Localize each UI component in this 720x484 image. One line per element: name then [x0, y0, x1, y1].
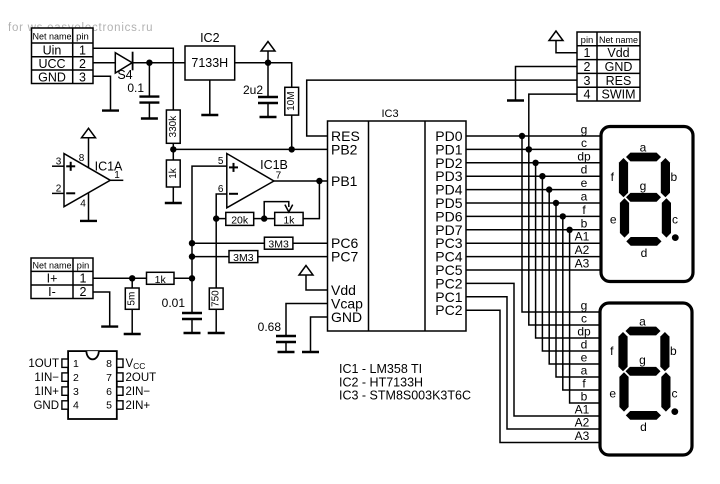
svg-text:4: 4: [584, 88, 591, 102]
svg-text:Net name: Net name: [32, 261, 71, 271]
svg-text:1IN−: 1IN−: [34, 372, 59, 384]
svg-text:dp: dp: [577, 149, 591, 163]
wire PD5 segment a: [466, 200, 601, 377]
svg-text:1OUT: 1OUT: [28, 358, 59, 370]
svg-text:1IN+: 1IN+: [34, 386, 59, 398]
potentiometer 1k: [264, 202, 303, 227]
svg-text:d: d: [581, 338, 588, 352]
svg-text:I-: I-: [48, 285, 56, 299]
svg-text:a: a: [581, 190, 588, 204]
junction after S4: [146, 60, 152, 66]
resistor 3M3 (PC7): [192, 251, 328, 265]
wire IC2 out: [235, 62, 268, 64]
svg-text:A1: A1: [575, 230, 590, 244]
wire PD6 segment f: [466, 213, 601, 390]
wire PB1 to pot: [303, 181, 319, 219]
svg-text:5m: 5m: [127, 292, 138, 306]
wire IC2 gnd: [209, 80, 211, 115]
svg-text:e: e: [581, 351, 588, 365]
svg-text:2: 2: [79, 57, 86, 71]
junction 20k/1k wiper: [261, 215, 267, 221]
resistor 750: [209, 288, 223, 333]
capacitor 5m: [125, 278, 139, 334]
svg-text:2: 2: [73, 372, 79, 384]
svg-text:pin: pin: [77, 261, 90, 272]
svg-text:7: 7: [106, 372, 112, 384]
wire A3 digit1: [466, 269, 601, 271]
svg-text:PB1: PB1: [331, 173, 358, 189]
wire RES net: [307, 80, 577, 136]
svg-text:Vdd: Vdd: [607, 46, 629, 60]
svg-text:a: a: [581, 364, 588, 378]
capacitor 0.68: [258, 320, 296, 352]
text BOM: [339, 362, 471, 403]
svg-text:A3: A3: [575, 257, 590, 271]
svg-text:PC2: PC2: [435, 302, 462, 318]
wire IC1B -in: [216, 194, 227, 219]
IC1A pin8 supply: [88, 138, 90, 168]
svg-text:c: c: [581, 312, 587, 326]
svg-text:1k: 1k: [155, 274, 167, 286]
wire PD7 segment b: [466, 227, 601, 403]
IC1A pin4 supply: [88, 193, 90, 221]
wire I+: [93, 277, 147, 279]
svg-text:e: e: [610, 213, 617, 227]
ground (IC1A): [80, 220, 97, 222]
svg-text:RES: RES: [606, 74, 632, 88]
wire A2 digit1: [466, 256, 601, 258]
wire -in node down: [215, 219, 217, 288]
wire IC3 gnd: [311, 317, 328, 352]
svg-text:2: 2: [584, 60, 591, 74]
svg-text:PB2: PB2: [331, 141, 358, 157]
wire UCC to diode: [93, 62, 115, 64]
svg-text:Uin: Uin: [43, 44, 62, 58]
svg-text:d: d: [581, 163, 588, 177]
svg-text:S4: S4: [117, 68, 132, 82]
svg-text:c: c: [672, 213, 678, 227]
svg-text:10M: 10M: [286, 91, 297, 110]
svg-text:pin: pin: [581, 35, 594, 46]
svg-text:SWIM: SWIM: [601, 88, 635, 102]
resistor 10M: [268, 63, 299, 150]
svg-text:0.68: 0.68: [258, 320, 282, 334]
wire Vcap: [286, 304, 328, 337]
resistor 3M3 (PC6): [192, 237, 328, 251]
net labels digit1: [575, 123, 591, 271]
svg-text:UCC: UCC: [38, 57, 65, 71]
svg-text:750: 750: [211, 290, 222, 307]
svg-text:I+: I+: [47, 271, 58, 285]
svg-text:2IN+: 2IN+: [126, 400, 151, 412]
ground (IC3): [302, 351, 319, 353]
svg-text:7: 7: [276, 171, 282, 182]
svg-text:g: g: [581, 299, 588, 313]
IC1A pin3 stub: [52, 165, 64, 167]
svg-text:pin: pin: [76, 32, 89, 43]
op-amp IC1B: [218, 154, 288, 208]
svg-text:GND: GND: [38, 71, 66, 85]
svg-text:GND: GND: [605, 60, 633, 74]
svg-text:g: g: [639, 353, 646, 367]
svg-text:b: b: [581, 390, 588, 404]
wire PD1 segment c: [466, 146, 601, 325]
wire PC2 to A3 digit2: [466, 310, 600, 442]
svg-text:IC1B: IC1B: [260, 158, 288, 172]
IC3 STM8S003 box: [328, 108, 467, 331]
svg-text:e: e: [609, 387, 616, 401]
svg-text:d: d: [640, 420, 647, 434]
ground (IC2): [201, 114, 218, 116]
svg-text:GND: GND: [33, 400, 59, 412]
resistor 1k input: [147, 272, 193, 286]
wire 20k to pot: [264, 218, 275, 220]
resistor 20k: [216, 212, 264, 226]
wire IC1B out to PB1: [274, 180, 328, 182]
ground (5m): [124, 333, 141, 335]
connector table J2 (I+/I-): [31, 258, 93, 299]
junction +in/1k: [189, 275, 195, 281]
svg-text:1k: 1k: [283, 214, 295, 226]
svg-text:A1: A1: [575, 403, 590, 417]
wire SWIM: [529, 94, 577, 149]
svg-text:1: 1: [114, 170, 120, 181]
regulator IC2 7133H: [185, 31, 235, 80]
wire PC1 to A2 digit2: [466, 297, 600, 429]
svg-text:4: 4: [80, 199, 86, 210]
svg-text:0.01: 0.01: [162, 296, 186, 310]
ground (0.01): [184, 332, 201, 334]
svg-text:dp: dp: [577, 325, 591, 339]
wire PC2 to A1 digit2: [466, 283, 600, 416]
wire I- to gnd: [93, 292, 110, 327]
svg-text:3: 3: [73, 386, 79, 398]
svg-text:b: b: [670, 170, 677, 184]
svg-text:2OUT: 2OUT: [126, 372, 157, 384]
wire A1 digit1: [466, 242, 601, 244]
ground (1k divider): [165, 202, 182, 204]
IC1A pin2 stub: [52, 192, 64, 194]
svg-text:1: 1: [584, 46, 591, 60]
svg-text:b: b: [670, 344, 677, 358]
ground (750): [208, 332, 225, 334]
IC1A pin1 stub: [110, 179, 123, 181]
svg-text:g: g: [581, 123, 588, 137]
7-segment display DS1: [601, 127, 693, 282]
svg-text:PC7: PC7: [331, 249, 358, 265]
junction I+/5m: [129, 275, 135, 281]
junction 10M bottom: [289, 146, 295, 152]
svg-text:d: d: [641, 246, 648, 260]
svg-text:3M3: 3M3: [268, 239, 289, 251]
svg-text:Net name: Net name: [599, 35, 638, 45]
junction +in/3M3a: [189, 240, 195, 246]
svg-text:2: 2: [80, 285, 87, 299]
resistor 1k divider: [166, 160, 180, 203]
svg-text:IC2: IC2: [200, 31, 220, 45]
svg-text:1: 1: [80, 271, 87, 285]
capacitor 2u2: [243, 63, 278, 117]
svg-text:e: e: [581, 176, 588, 190]
svg-text:3M3: 3M3: [233, 252, 254, 264]
wire PD0 segment g: [466, 133, 601, 312]
capacitor 0.01: [162, 296, 202, 333]
wire PD3 segment d: [466, 173, 601, 351]
svg-text:3: 3: [79, 71, 86, 85]
svg-text:8: 8: [79, 153, 85, 164]
svg-text:A3: A3: [575, 429, 590, 443]
svg-text:A2: A2: [575, 243, 590, 257]
svg-text:1k: 1k: [168, 167, 179, 179]
svg-text:2IN−: 2IN−: [126, 386, 151, 398]
svg-text:A2: A2: [575, 416, 590, 430]
junction Vdd node: [265, 60, 271, 66]
svg-text:a: a: [640, 141, 647, 155]
ground (J3): [507, 99, 524, 101]
power flag Vdd: [261, 42, 275, 63]
junction 330k/1k/PB2: [170, 146, 176, 152]
power flag J3 Vdd: [549, 31, 577, 53]
svg-text:IC2 - HT7133H: IC2 - HT7133H: [339, 375, 423, 389]
resistor 330k: [166, 110, 180, 160]
wire GND pin3: [93, 76, 111, 110]
capacitor 0.1: [127, 63, 159, 119]
net labels digit2: [575, 299, 591, 444]
svg-text:a: a: [639, 315, 646, 329]
svg-text:c: c: [581, 136, 587, 150]
wire IC1B +in: [192, 166, 227, 313]
power flag IC1A: [82, 128, 96, 138]
ground (2u2): [260, 116, 277, 118]
svg-text:5: 5: [106, 400, 112, 412]
ground (table J1): [102, 109, 119, 111]
svg-text:3: 3: [584, 74, 591, 88]
junction +in/3M3b: [189, 253, 195, 259]
wire diode to IC2: [133, 62, 185, 64]
wire J3 GND: [516, 67, 578, 101]
ground (0.68): [278, 351, 295, 353]
ground (I-): [101, 325, 118, 327]
svg-text:6: 6: [106, 386, 112, 398]
svg-text:1: 1: [73, 358, 79, 370]
svg-text:8: 8: [106, 358, 112, 370]
DIP-8 package LM358: [28, 351, 156, 419]
svg-text:1: 1: [79, 44, 86, 58]
svg-text:4: 4: [73, 400, 79, 412]
connector table J3 (SWIM): [577, 32, 640, 102]
svg-text:IC3 - STM8S003K3T6C: IC3 - STM8S003K3T6C: [339, 389, 471, 403]
connector table J1 (Uin/UCC/GND): [32, 28, 94, 85]
svg-text:c: c: [672, 387, 678, 401]
svg-text:IC3: IC3: [381, 108, 398, 120]
svg-text:Net name: Net name: [32, 32, 71, 42]
op-amp IC1A: [56, 153, 123, 210]
svg-text:b: b: [581, 216, 588, 230]
svg-text:GND: GND: [331, 309, 362, 325]
svg-text:2u2: 2u2: [243, 83, 263, 97]
svg-text:20k: 20k: [231, 214, 249, 226]
svg-text:IC1 - LM358 TI: IC1 - LM358 TI: [339, 362, 422, 376]
svg-text:330k: 330k: [168, 115, 179, 138]
junction -in/20k: [213, 215, 219, 221]
svg-text:g: g: [640, 179, 647, 193]
junction SWIM/PD1: [526, 146, 532, 152]
svg-text:7133H: 7133H: [191, 56, 228, 70]
junction PB1 node: [316, 178, 322, 184]
diode S4: [115, 52, 132, 82]
watermark text: [8, 22, 153, 34]
wire Uin to 330k: [93, 48, 173, 110]
wire PD2 segment dp: [466, 160, 601, 338]
power flag IC3 Vdd: [299, 266, 328, 291]
7-segment display DS2: [600, 303, 692, 455]
svg-text:0.1: 0.1: [127, 81, 144, 95]
ground (0.1 cap): [141, 117, 158, 119]
wire divider node to PB2: [173, 148, 327, 150]
wire PD4 segment e: [466, 186, 601, 364]
